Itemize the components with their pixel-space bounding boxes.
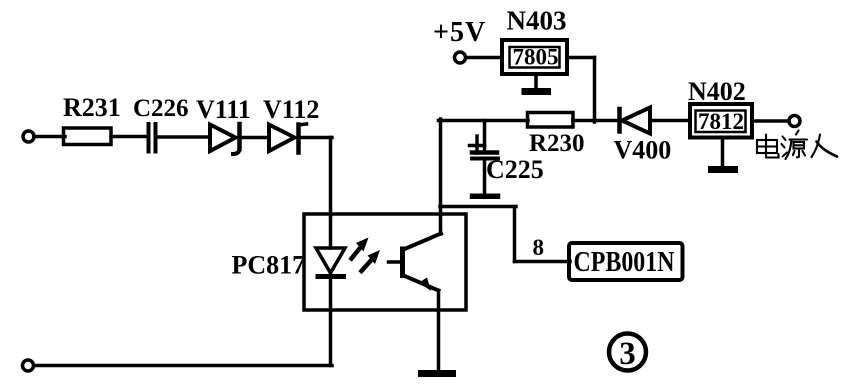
svg-text:V112: V112: [263, 95, 319, 124]
svg-text:8: 8: [533, 235, 545, 260]
svg-text:CPB001N: CPB001N: [574, 246, 675, 277]
svg-text:7812: 7812: [698, 109, 744, 134]
svg-text:PC817: PC817: [232, 251, 306, 280]
svg-text:R231: R231: [63, 93, 121, 122]
svg-text:C225: C225: [486, 155, 544, 184]
svg-text:R230: R230: [529, 130, 585, 157]
svg-text:N402: N402: [688, 77, 746, 106]
svg-text:V111: V111: [196, 95, 251, 124]
svg-text:C226: C226: [133, 95, 189, 122]
svg-text:+5V: +5V: [433, 17, 486, 48]
svg-text:7805: 7805: [513, 45, 559, 70]
svg-text:N403: N403: [507, 6, 567, 36]
svg-text:V400: V400: [614, 136, 672, 165]
svg-text:3: 3: [619, 336, 636, 372]
